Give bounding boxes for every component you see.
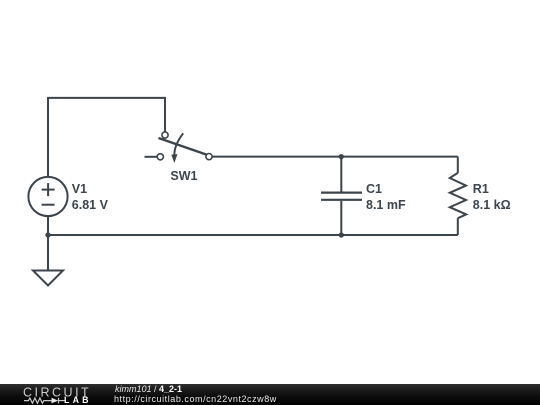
wire V1 top to switch top — [48, 98, 165, 178]
wire SW1 right to node A — [212, 156, 342, 158]
wire V1 bottom to ground — [47, 216, 49, 271]
wire node A to R1 top — [341, 156, 458, 158]
svg-text:R1: R1 — [473, 182, 489, 196]
node A junction dot (top of C1) — [339, 154, 344, 159]
logo resistor-diode glyph — [24, 398, 65, 404]
wire bottom net — [48, 234, 458, 236]
footer title line — [115, 384, 182, 394]
SW1 blade — [159, 138, 207, 155]
ground — [33, 271, 63, 286]
svg-text:C1: C1 — [366, 182, 382, 196]
SW1 top terminal — [162, 132, 168, 138]
node junction dot bottom of C1 — [339, 232, 344, 237]
svg-text:8.1 kΩ: 8.1 kΩ — [473, 198, 511, 212]
switch SW1 — [145, 132, 213, 163]
svg-text:V1: V1 — [72, 182, 87, 196]
SW1 right terminal — [206, 154, 212, 160]
node junction dot below V1 — [45, 232, 50, 237]
SW1 left stub wire — [145, 156, 158, 158]
CircuitLab logo — [0, 384, 100, 405]
footer url line — [114, 394, 277, 404]
svg-text:8.1 mF: 8.1 mF — [366, 198, 406, 212]
svg-text:6.81 V: 6.81 V — [72, 198, 109, 212]
svg-text:SW1: SW1 — [170, 169, 197, 183]
voltage source V1 — [28, 177, 67, 216]
SW1 arrow — [174, 133, 183, 158]
resistor R1 — [450, 157, 466, 235]
footer bar — [0, 384, 540, 405]
svg-text:LAB: LAB — [64, 395, 92, 405]
SW1 left terminal — [157, 154, 163, 160]
capacitor C1 — [321, 157, 362, 235]
